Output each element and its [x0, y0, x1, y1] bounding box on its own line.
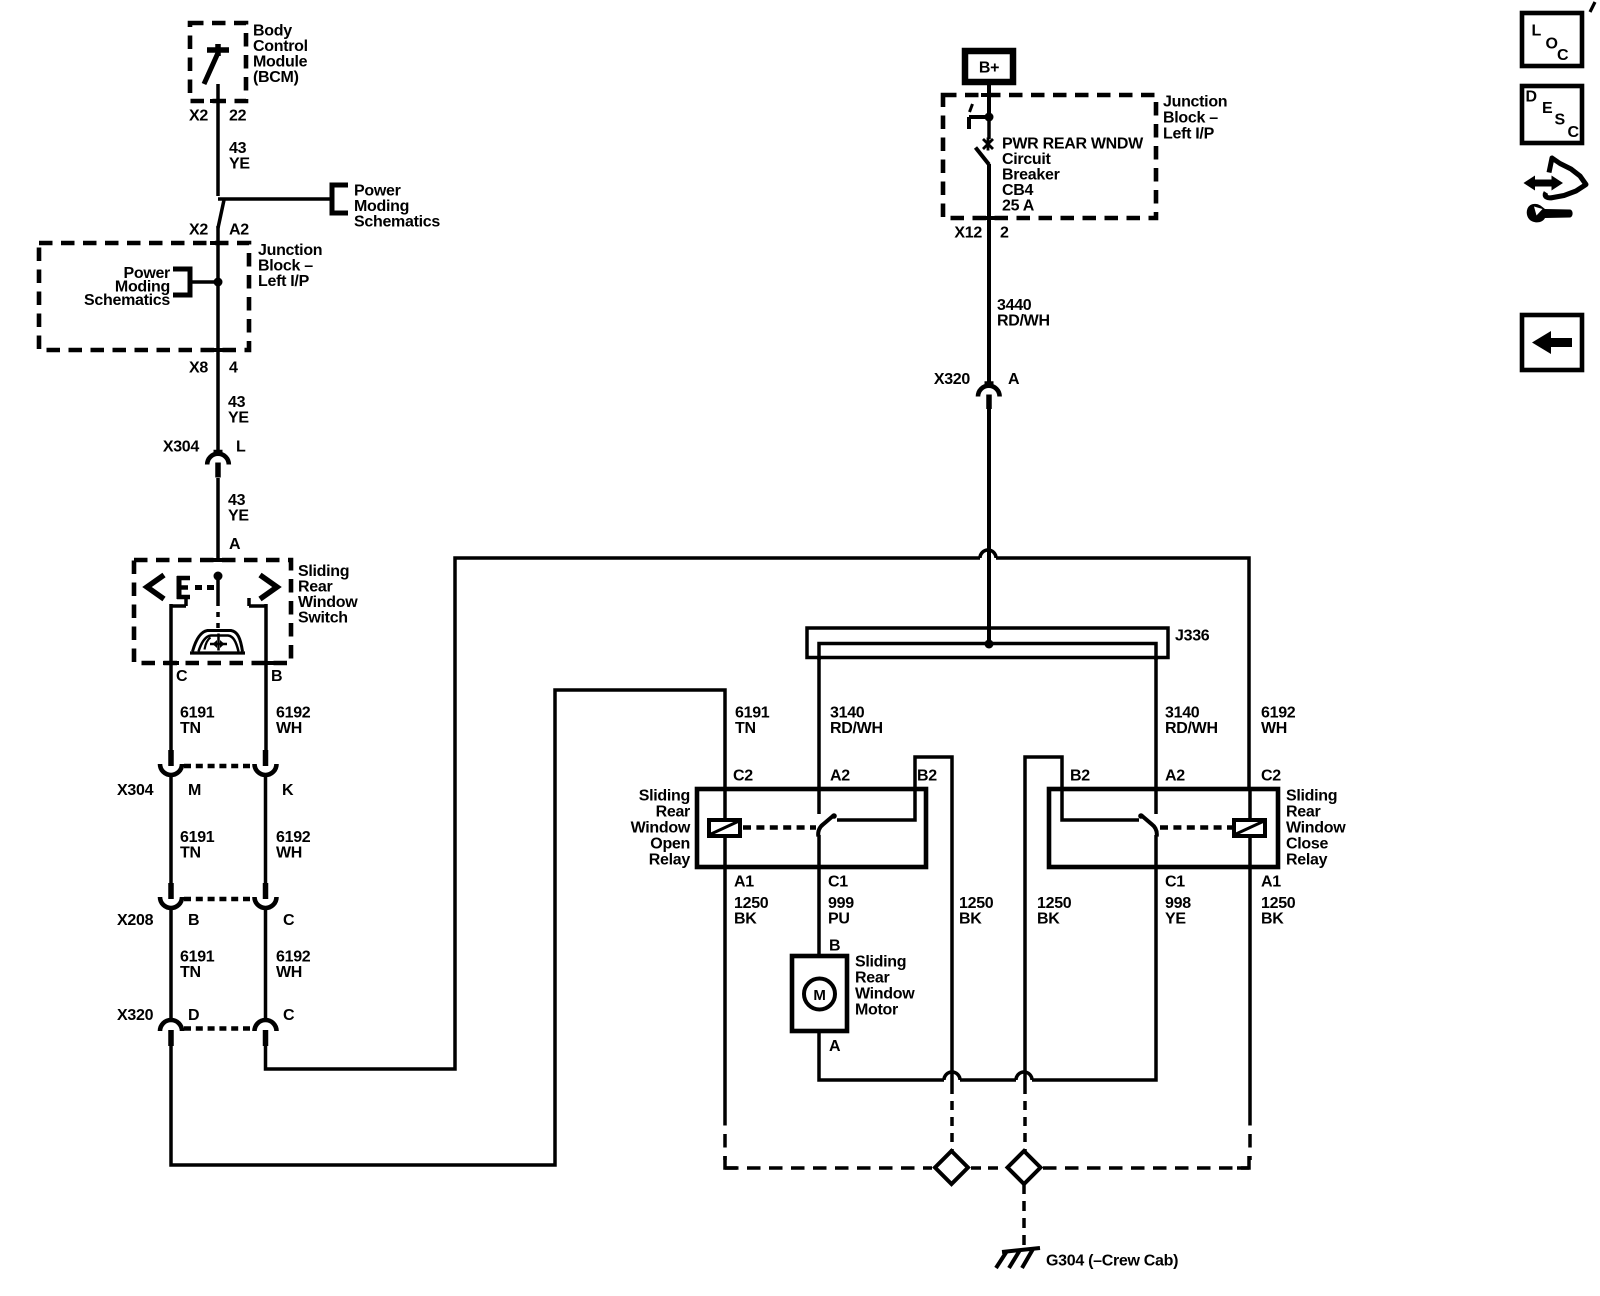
- svg-text:Sliding: Sliding: [639, 788, 690, 805]
- wire label 3440 RD/WH: [997, 297, 1050, 330]
- close relay C1 wire down: [1154, 835, 1158, 867]
- dashed link X304: [184, 764, 253, 769]
- svg-text:Sliding: Sliding: [298, 563, 349, 580]
- wire 6192 WH continues to close relay: [996, 558, 1249, 789]
- wire segment between hops: [960, 1078, 1016, 1082]
- svg-text:Block –: Block –: [1163, 110, 1218, 127]
- connector label X320 pin A: [934, 371, 1020, 388]
- svg-text:3440: 3440: [997, 297, 1032, 314]
- svg-text:Window: Window: [1286, 820, 1346, 837]
- wire label 6192 WH (at close relay C2): [1261, 705, 1296, 738]
- svg-text:C1: C1: [828, 874, 848, 891]
- pin tick at CB box bottom: [981, 216, 997, 220]
- svg-text:X208: X208: [117, 912, 154, 929]
- svg-text:6191: 6191: [180, 829, 215, 846]
- wire open relay A1 down: [723, 867, 727, 1112]
- close relay actuation dashes: [1160, 825, 1233, 830]
- corner mark: [1590, 2, 1595, 12]
- wire branch to Power Moding Schematics: [218, 197, 332, 201]
- wire 6191 TN route to open relay C2: [171, 690, 725, 1165]
- svg-text:Rear: Rear: [1286, 804, 1320, 821]
- wire label 6191 TN: [180, 705, 215, 738]
- svg-text:6192: 6192: [276, 705, 311, 722]
- svg-text:Module: Module: [253, 54, 308, 71]
- pin ticks at switch bottom: [163, 661, 179, 665]
- pin tick at BCM box edge: [210, 99, 226, 103]
- B+ label: [979, 60, 999, 77]
- Sliding Rear Window Open Relay box: [697, 789, 926, 867]
- junction dot on J336 bus: [985, 640, 994, 649]
- close relay B2 contact: [1062, 789, 1139, 820]
- splice pack J336 outer: [807, 628, 1168, 658]
- svg-text:Motor: Motor: [855, 1002, 898, 1019]
- svg-text:BK: BK: [1037, 911, 1060, 928]
- open relay coil: [709, 820, 740, 836]
- wire label 6192 WH: [276, 949, 311, 982]
- wire 6191 TN segment 3: [169, 908, 173, 1018]
- svg-text:Control: Control: [253, 38, 308, 55]
- svg-text:WH: WH: [1261, 720, 1287, 737]
- crossover hop on 6192 WH over feed wire: [980, 550, 996, 558]
- open relay B2 jog wire: [915, 757, 952, 1085]
- svg-text:L: L: [1532, 23, 1542, 40]
- circuit breaker label: [1002, 136, 1144, 215]
- svg-text:1250: 1250: [1261, 895, 1296, 912]
- svg-text:A1: A1: [1261, 874, 1281, 891]
- svg-text:X320: X320: [117, 1007, 154, 1024]
- wire label 1250 BK (close relay B2): [1037, 895, 1072, 928]
- svg-text:999: 999: [828, 895, 854, 912]
- svg-text:TN: TN: [735, 720, 756, 737]
- svg-text:B: B: [271, 668, 282, 685]
- wire pin B down: [264, 604, 268, 750]
- motor pin label B: [829, 938, 840, 955]
- svg-text:B2: B2: [917, 768, 937, 785]
- svg-text:6191: 6191: [180, 705, 215, 722]
- crossover hop over left ground wire: [944, 1072, 960, 1080]
- svg-text:YE: YE: [228, 508, 249, 525]
- svg-text:X304: X304: [117, 782, 154, 799]
- wire J336 to open relay A2: [817, 657, 821, 814]
- svg-text:43: 43: [228, 492, 246, 509]
- wire label 3140 RD/WH (left of J336 left leg): [830, 705, 883, 738]
- pin tick at CB box top: [981, 93, 997, 97]
- wire label 998 YE: [1165, 895, 1191, 928]
- Junction Block - Left I/P dashed box (right): [943, 95, 1156, 218]
- wire 6191 TN segment 2: [169, 775, 173, 884]
- svg-text:C2: C2: [1261, 768, 1281, 785]
- svg-text:Breaker: Breaker: [1002, 167, 1060, 184]
- open relay C1 wire to motor: [817, 835, 821, 956]
- svg-text:RD/WH: RD/WH: [830, 720, 883, 737]
- in-line connector X304 L: [207, 444, 229, 478]
- connector labels X320 D C: [117, 1007, 295, 1024]
- pin labels C and B: [176, 668, 282, 685]
- bracket inside JB: [173, 269, 190, 295]
- svg-text:Close: Close: [1286, 836, 1328, 853]
- svg-text:43: 43: [229, 140, 247, 157]
- ground label: [1046, 1253, 1178, 1270]
- right chevron: [260, 575, 277, 599]
- wire label 6191 TN: [180, 949, 215, 982]
- svg-text:Left I/P: Left I/P: [258, 273, 310, 290]
- wire diagonal jog: [218, 200, 224, 228]
- svg-text:PWR REAR WNDW: PWR REAR WNDW: [1002, 136, 1144, 153]
- wire 6192 WH route to close relay C2: [266, 558, 981, 1069]
- in-line connector X320 D: [160, 1020, 182, 1046]
- svg-text:PU: PU: [828, 911, 850, 928]
- icon wrench: [1527, 204, 1573, 223]
- switch contact B (right): [247, 598, 251, 606]
- dashed ground wire from close relay A1: [1248, 1112, 1252, 1160]
- svg-text:A2: A2: [229, 222, 249, 239]
- svg-text:Schematics: Schematics: [84, 292, 170, 309]
- dashed ground bus right: [1043, 1166, 1249, 1170]
- wire 43 YE to switch: [216, 478, 220, 560]
- wire label 6192 WH (mid): [276, 829, 311, 862]
- svg-text:O: O: [1546, 36, 1558, 53]
- Sliding Rear Window Close Relay box: [1049, 789, 1278, 867]
- icon double arrow: [1533, 180, 1556, 187]
- svg-text:E: E: [1542, 100, 1553, 117]
- pin tick at switch top: [210, 558, 226, 562]
- splice diamond S2: [1008, 1151, 1041, 1184]
- svg-text:A: A: [1008, 371, 1020, 388]
- splice pack J336 inner bus: [819, 644, 1156, 661]
- svg-text:WH: WH: [276, 964, 302, 981]
- crossover hop over right ground wire: [1016, 1072, 1032, 1080]
- open relay label: [631, 788, 691, 869]
- svg-text:C: C: [283, 1007, 295, 1024]
- switch actuator dashed stem: [216, 580, 220, 632]
- connector label X2 pin A2: [189, 222, 249, 239]
- svg-text:1250: 1250: [959, 895, 994, 912]
- svg-text:2: 2: [1000, 225, 1009, 242]
- dashed link X208: [184, 897, 253, 902]
- motor pin label A: [829, 1038, 841, 1055]
- connector label X8 pin 4: [189, 360, 238, 377]
- pin label A: [229, 536, 241, 553]
- in-line connector X320 A: [978, 383, 1000, 409]
- svg-text:L: L: [236, 439, 246, 456]
- icon back arrow: [1532, 331, 1572, 354]
- svg-text:6191: 6191: [180, 949, 215, 966]
- wire 6192 WH segment 2: [264, 775, 268, 884]
- wire label 999 PU: [828, 895, 854, 928]
- open relay coil wire C2: [723, 789, 727, 820]
- svg-text:Window: Window: [298, 594, 358, 611]
- svg-text:YE: YE: [229, 156, 250, 173]
- svg-text:Block –: Block –: [258, 258, 313, 275]
- svg-text:CB4: CB4: [1002, 182, 1034, 199]
- svg-text:Moding: Moding: [354, 198, 409, 215]
- pin tick at JB bottom: [210, 348, 226, 352]
- svg-text:TN: TN: [180, 720, 201, 737]
- svg-text:B: B: [188, 912, 199, 929]
- svg-text:25 A: 25 A: [1002, 198, 1035, 215]
- svg-text:X304: X304: [163, 439, 200, 456]
- svg-text:Rear: Rear: [298, 579, 332, 596]
- close relay coil to A1: [1248, 836, 1252, 867]
- wire 3140 RD/WH down to splice: [987, 409, 991, 644]
- wire label 3140 RD/WH (right leg): [1165, 705, 1218, 738]
- svg-text:C: C: [1568, 124, 1580, 141]
- svg-text:Body: Body: [253, 23, 292, 40]
- Power Moding Schematics label (right): [354, 183, 440, 231]
- in-line connector X208 C: [255, 883, 277, 908]
- window icon: [190, 631, 245, 654]
- Sliding Rear Window Motor box: [792, 956, 847, 1031]
- svg-text:3140: 3140: [830, 705, 865, 722]
- wire down through junction block: [216, 226, 220, 444]
- svg-text:G304 (–Crew Cab): G304 (–Crew Cab): [1046, 1253, 1178, 1270]
- svg-text:Junction: Junction: [258, 242, 322, 259]
- svg-text:(BCM): (BCM): [253, 69, 299, 86]
- close relay pin labels top: [1070, 768, 1281, 785]
- svg-text:D: D: [188, 1007, 199, 1024]
- svg-text:3140: 3140: [1165, 705, 1200, 722]
- svg-text:A2: A2: [830, 768, 850, 785]
- svg-text:C2: C2: [733, 768, 753, 785]
- open relay bottom pin labels: [734, 874, 848, 891]
- svg-text:YE: YE: [1165, 911, 1186, 928]
- in-line connector X304 M: [160, 750, 182, 775]
- svg-text:TN: TN: [180, 845, 201, 862]
- svg-text:B+: B+: [979, 60, 999, 77]
- dashed corner left: [725, 1156, 737, 1168]
- circuit breaker CB4 symbol: [969, 104, 994, 383]
- wire label 43 YE: [229, 140, 250, 173]
- wire pin C down: [169, 604, 173, 750]
- in-line connector X320 C: [255, 1020, 277, 1046]
- wire label 43 YE (third): [228, 492, 249, 525]
- svg-text:6191: 6191: [735, 705, 770, 722]
- wire label 1250 BK (close relay A1): [1261, 895, 1296, 928]
- svg-text:K: K: [282, 782, 294, 799]
- dashed drop from open relay B2 wire: [950, 1085, 954, 1151]
- motor circle M: [804, 979, 835, 1010]
- icon LOC letters: [1532, 23, 1570, 65]
- dashed drop from close relay B2 wire: [1023, 1085, 1027, 1151]
- dashed ground bus bottom: [725, 1166, 932, 1170]
- svg-text:BK: BK: [734, 911, 757, 928]
- icon LOC box: [1522, 13, 1582, 66]
- svg-text:Switch: Switch: [298, 610, 348, 627]
- Power Moding Schematics label (inside JB): [84, 265, 170, 309]
- close relay coil: [1234, 820, 1265, 836]
- dashed between diamonds: [971, 1166, 1002, 1170]
- svg-text:D: D: [1526, 89, 1537, 106]
- svg-text:998: 998: [1165, 895, 1191, 912]
- svg-text:C1: C1: [1165, 874, 1185, 891]
- svg-text:Circuit: Circuit: [1002, 151, 1052, 168]
- close relay label: [1286, 788, 1346, 869]
- svg-text:C: C: [1557, 47, 1569, 64]
- Body Control Module (BCM) dashed box: [190, 23, 246, 101]
- svg-text:TN: TN: [180, 964, 201, 981]
- in-line connector X304 K: [255, 750, 277, 775]
- svg-text:WH: WH: [276, 720, 302, 737]
- open relay actuation dashes: [743, 825, 816, 830]
- svg-text:Open: Open: [650, 836, 690, 853]
- svg-text:Sliding: Sliding: [855, 954, 906, 971]
- splice diamond S1: [935, 1151, 968, 1184]
- open relay coil to A1: [723, 836, 727, 867]
- svg-text:A1: A1: [734, 874, 754, 891]
- open relay pin labels top: [733, 768, 937, 785]
- svg-text:X2: X2: [189, 108, 208, 125]
- svg-text:Rear: Rear: [855, 970, 889, 987]
- svg-text:RD/WH: RD/WH: [997, 313, 1050, 330]
- icon DESC letters: [1526, 89, 1580, 142]
- close relay B2 jog wire: [1025, 757, 1062, 1085]
- open relay armature blade: [818, 813, 837, 836]
- wire 6192 WH segment 3: [264, 908, 268, 1018]
- svg-text:RD/WH: RD/WH: [1165, 720, 1218, 737]
- svg-text:6192: 6192: [1261, 705, 1296, 722]
- svg-text:Junction: Junction: [1163, 94, 1227, 111]
- svg-text:4: 4: [229, 360, 238, 377]
- svg-text:Window: Window: [631, 820, 691, 837]
- icon freehand flag outline: [1545, 158, 1586, 198]
- wire B+ to circuit breaker: [987, 85, 991, 117]
- left chevron: [147, 575, 164, 599]
- junction dot at JB: [214, 278, 223, 287]
- svg-text:A: A: [829, 1038, 841, 1055]
- junction dot inside switch: [214, 572, 223, 581]
- ground symbol G304: [996, 1248, 1040, 1268]
- svg-text:Window: Window: [855, 986, 915, 1003]
- wire label 6192 WH: [276, 705, 311, 738]
- svg-text:1250: 1250: [734, 895, 769, 912]
- wire label 6191 TN (mid): [180, 829, 215, 862]
- connector label X304 pin L: [163, 439, 246, 456]
- Sliding Rear Window Switch dashed box: [134, 560, 291, 663]
- svg-text:Left I/P: Left I/P: [1163, 126, 1215, 143]
- wire label 43 YE: [228, 394, 249, 427]
- B+ power feed box: [965, 51, 1013, 82]
- wire BCM pin 22 down: [216, 84, 220, 196]
- dashed link X320: [184, 1026, 252, 1031]
- in-line connector X208 B: [160, 883, 182, 908]
- svg-text:Power: Power: [354, 183, 401, 200]
- dashed corner right: [1237, 1156, 1249, 1168]
- pin tick at JB top: [210, 241, 226, 245]
- switch box label: [298, 563, 358, 627]
- svg-text:B2: B2: [1070, 768, 1090, 785]
- svg-text:Schematics: Schematics: [354, 214, 440, 231]
- wire from bracket to main wire: [190, 280, 218, 284]
- svg-text:X12: X12: [954, 225, 982, 242]
- Junction Block - Left I/P dashed box: [39, 243, 249, 350]
- letter E with dashes: [177, 576, 214, 599]
- close relay armature blade: [1138, 813, 1157, 836]
- wire label 1250 BK (open relay A1): [734, 895, 769, 928]
- svg-text:WH: WH: [276, 845, 302, 862]
- svg-text:43: 43: [228, 394, 246, 411]
- close relay coil wire C2: [1248, 789, 1252, 820]
- Junction Block label (right): [1163, 94, 1227, 143]
- svg-text:1250: 1250: [1037, 895, 1072, 912]
- wire close relay A1 down: [1248, 867, 1252, 1112]
- BCM internal output driver switch symbol: [204, 44, 229, 84]
- wire label 1250 BK (open relay B2): [959, 895, 994, 928]
- svg-text:X2: X2: [189, 222, 208, 239]
- svg-text:X8: X8: [189, 360, 208, 377]
- svg-text:M: M: [188, 782, 201, 799]
- connector labels X208 B C: [117, 912, 295, 929]
- svg-text:BK: BK: [959, 911, 982, 928]
- icon back arrow box: [1522, 315, 1582, 370]
- svg-text:Rear: Rear: [656, 804, 690, 821]
- off-page bracket: [332, 185, 348, 213]
- connector label X12 pin 2: [954, 225, 1009, 242]
- wire J336 to close relay A2: [1154, 657, 1158, 814]
- svg-text:C: C: [283, 912, 295, 929]
- dashed wire diamond to ground: [1022, 1184, 1026, 1247]
- Junction Block label: [258, 242, 322, 290]
- svg-text:BK: BK: [1261, 911, 1284, 928]
- svg-text:S: S: [1555, 112, 1566, 129]
- icon DESC box: [1522, 86, 1582, 143]
- svg-text:C: C: [176, 668, 188, 685]
- switch contact C (left): [184, 598, 188, 606]
- wire label 6191 TN (at open relay C2): [735, 705, 770, 738]
- svg-text:Relay: Relay: [1286, 852, 1328, 869]
- svg-text:Sliding: Sliding: [1286, 788, 1337, 805]
- dashed ground wire from open relay A1: [723, 1112, 727, 1160]
- connector labels X304 M K: [117, 782, 294, 799]
- svg-text:YE: YE: [228, 410, 249, 427]
- svg-text:A2: A2: [1165, 768, 1185, 785]
- svg-text:J336: J336: [1175, 628, 1210, 645]
- close relay bottom pin labels: [1165, 874, 1281, 891]
- wire to close relay C1: [1032, 867, 1156, 1080]
- svg-text:B: B: [829, 938, 840, 955]
- connector label X2 pin 22: [189, 108, 247, 125]
- open relay B2 contact: [837, 789, 915, 820]
- motor label: [855, 954, 915, 1019]
- wire motor A to close relay C1: [819, 1031, 944, 1080]
- svg-text:6192: 6192: [276, 949, 311, 966]
- svg-text:6192: 6192: [276, 829, 311, 846]
- svg-text:Relay: Relay: [649, 852, 691, 869]
- svg-text:A: A: [229, 536, 241, 553]
- svg-text:X320: X320: [934, 371, 971, 388]
- J336 label: [1175, 628, 1210, 645]
- svg-text:22: 22: [229, 108, 247, 125]
- BCM label: [253, 23, 308, 87]
- svg-text:M: M: [813, 987, 825, 1004]
